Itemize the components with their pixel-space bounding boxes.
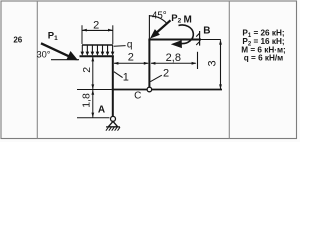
hinge C circle	[147, 87, 152, 92]
svg-text:2: 2	[93, 20, 99, 32]
svg-text:2: 2	[81, 67, 93, 73]
svg-text:30°: 30°	[36, 49, 50, 59]
dimension 2 (vertical left)	[81, 57, 94, 90]
45 degree arc	[149, 16, 166, 23]
svg-text:2: 2	[163, 67, 169, 79]
thin extension from B to dimension 3	[201, 39, 221, 41]
column member 2 (vertical at x=149.4)	[148, 40, 150, 88]
dimension 2,8	[151, 52, 198, 69]
dimension 2 over the distributed load	[82, 20, 113, 45]
svg-text:B: B	[203, 25, 210, 36]
force P1 arrow	[41, 43, 78, 60]
svg-text:2,8: 2,8	[166, 52, 181, 64]
lower horizontal member through C	[112, 89, 222, 91]
svg-text:M: M	[184, 14, 192, 25]
svg-text:q = 6 кН/м: q = 6 кН/м	[244, 54, 284, 63]
column member A (vertical at x=112.8)	[112, 55, 114, 116]
svg-text:1: 1	[123, 71, 129, 83]
svg-text:2: 2	[128, 51, 134, 63]
dimension 1,8 (vertical left)	[81, 90, 95, 118]
svg-text:q: q	[127, 40, 133, 51]
extension line left of column at lower member level	[77, 89, 112, 91]
svg-text:A: A	[98, 105, 105, 116]
svg-text:1,8: 1,8	[81, 93, 93, 108]
dimension 2 between columns	[114, 51, 149, 64]
top beam member to B	[148, 39, 201, 41]
30 degree reference line	[51, 59, 79, 61]
dimension 3 (vertical right)	[206, 40, 222, 89]
force P2 arrow	[150, 20, 171, 38]
distributed load q	[81, 45, 115, 56]
member label 1 with leader	[114, 71, 129, 83]
svg-text:45°: 45°	[152, 11, 167, 22]
pin support A	[106, 116, 120, 130]
beam member 1 (horizontal, loaded with q)	[80, 55, 114, 57]
extension line at A level	[77, 117, 110, 119]
moment M arc arrow	[171, 25, 194, 48]
svg-text:C: C	[134, 91, 141, 102]
support mark at B	[196, 31, 199, 46]
svg-text:26: 26	[13, 36, 22, 45]
data panel text	[241, 29, 286, 63]
member label 2 with leader	[150, 67, 169, 81]
label q with leader	[114, 40, 133, 51]
vertical reference line above column 2	[148, 15, 150, 39]
svg-text:3: 3	[206, 60, 218, 66]
